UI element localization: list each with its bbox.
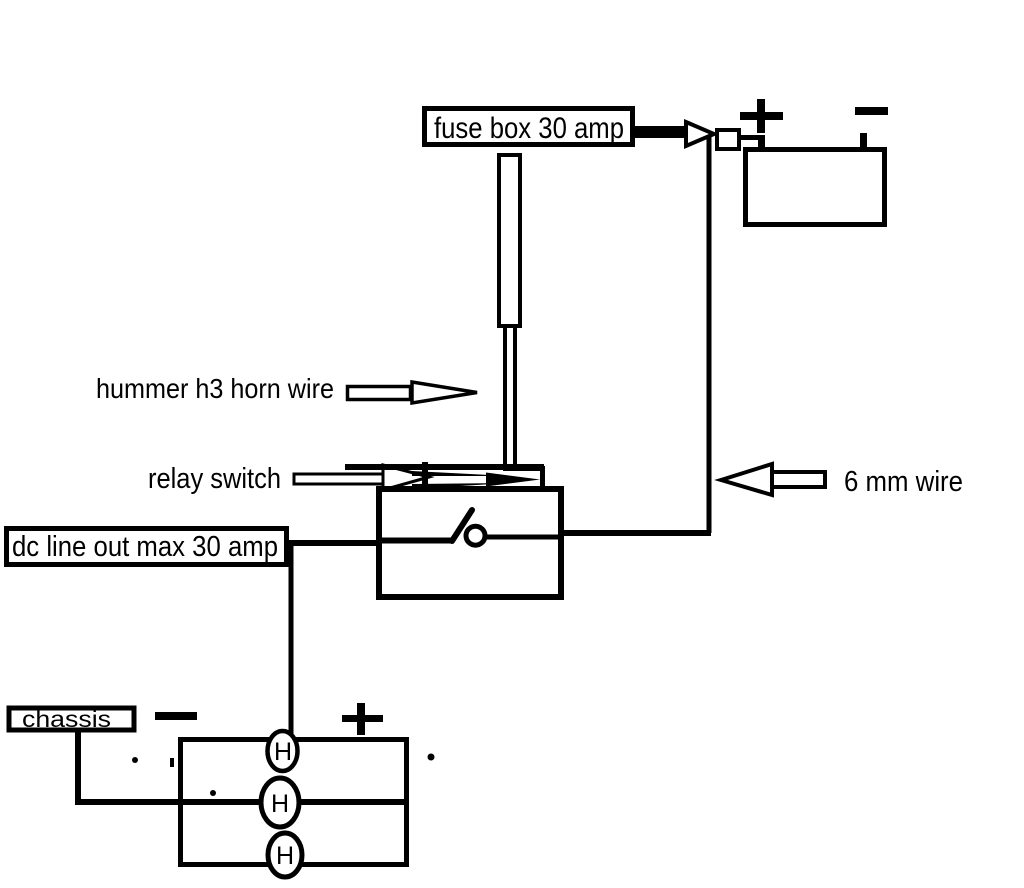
svg-text:H: H: [271, 790, 289, 818]
wire: horn wire double line right: [513, 326, 517, 470]
arrow after relay switch label: [294, 465, 429, 490]
arrow from fuse box label to fuse connector: [634, 122, 714, 146]
horn box: [181, 740, 407, 865]
wire from dc line out box to relay: [287, 540, 380, 546]
battery minus symbol: [855, 107, 888, 115]
wire: horn wire double line left: [503, 326, 507, 464]
dot right of horn box: [428, 754, 435, 761]
battery - terminal tick: [860, 133, 867, 155]
svg-text:relay switch: relay switch: [148, 463, 281, 495]
svg-text:chassis: chassis: [22, 706, 111, 732]
svg-text:hummer h3 horn wire: hummer h3 horn wire: [96, 373, 334, 404]
label box: fuse box 30 amp: [425, 109, 633, 146]
arrow pointing left at 6mm wire: [721, 464, 825, 495]
svg-text:H: H: [274, 738, 292, 766]
label box: dc line out max 30 amp: [7, 529, 287, 565]
dot at horn box top left: [170, 758, 174, 767]
battery box: [746, 150, 885, 225]
relay box: [379, 489, 561, 597]
wire from connector square to battery + terminal: [739, 135, 763, 140]
horn minus symbol: [155, 712, 197, 720]
fuse connector square: [717, 130, 739, 149]
arrow after hummer label: [348, 382, 478, 403]
relay switch symbol: [382, 510, 561, 545]
wire down from dc junction to horn: [289, 546, 294, 737]
horn H1: [268, 731, 298, 771]
horn H2: [261, 778, 299, 827]
dot inside horn box: [210, 790, 216, 796]
svg-text:fuse box 30 amp: fuse box 30 amp: [434, 112, 624, 145]
wire from chassis down: [75, 732, 81, 802]
wire: 6mm vertical run from fuse connector down: [707, 137, 712, 533]
svg-text:H: H: [276, 842, 294, 870]
battery plus symbol: [740, 99, 783, 133]
wire: 6mm horizontal run to relay: [561, 530, 711, 536]
battery + terminal tick: [758, 135, 765, 155]
dot left of horn: [132, 757, 138, 763]
horn H3: [268, 833, 302, 877]
wire: elbow from horn wire to relay top: [503, 466, 545, 488]
second scribble arrow toward relay corner: [345, 462, 544, 490]
svg-text:dc line out max 30 amp: dc line out max 30 amp: [12, 531, 278, 563]
wire chassis to horn middle: [75, 799, 409, 805]
horn plus symbol: [342, 703, 383, 735]
svg-text:6 mm wire: 6 mm wire: [844, 466, 963, 498]
fuse holder tall rectangle: [499, 155, 520, 326]
label box: chassis: [9, 706, 134, 732]
